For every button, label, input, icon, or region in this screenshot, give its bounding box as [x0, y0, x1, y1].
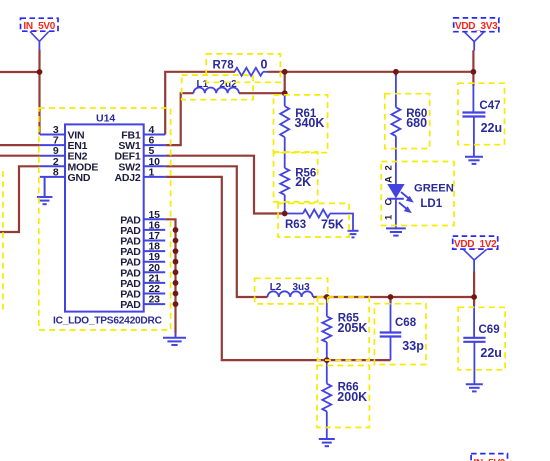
- svg-text:0: 0: [261, 58, 268, 72]
- pin 3 VIN stub: [40, 134, 65, 136]
- net label IN_5V0 (bottom, clipped) box: [471, 454, 507, 461]
- inductor L1: [194, 88, 239, 94]
- resistor R66: [322, 384, 331, 412]
- pin 21 PAD stub: [144, 282, 166, 284]
- svg-text:2K: 2K: [295, 175, 311, 189]
- wire SW1 to L1: [165, 93, 193, 145]
- highlight box L1: [182, 75, 253, 100]
- pin 19 PAD stub: [144, 261, 166, 263]
- svg-text:A: A: [384, 176, 395, 183]
- wire C69 lead: [473, 305, 475, 338]
- node VDD_3V3/C47 junction: [471, 69, 477, 75]
- node PAD21 junction: [173, 280, 179, 286]
- wire R63 right lead to ground: [330, 214, 353, 231]
- capacitor C68: [380, 331, 402, 333]
- op-amp U14 IC body: [65, 124, 144, 311]
- resistor R78: [235, 68, 264, 76]
- LED LD1 cathode bar: [387, 198, 404, 200]
- svg-text:340K: 340K: [295, 116, 325, 130]
- net VDD_3V3 supply arrow: [465, 32, 484, 41]
- svg-text:IC_LDO_TPS62420DRC: IC_LDO_TPS62420DRC: [53, 316, 163, 327]
- svg-text:GND: GND: [68, 172, 91, 184]
- ground at C69: [466, 383, 483, 385]
- wire VDD_1V2 drop: [473, 272, 475, 297]
- svg-text:22u: 22u: [480, 346, 502, 360]
- svg-text:C68: C68: [395, 317, 417, 329]
- wire R60 top lead: [395, 74, 397, 107]
- svg-text:VDD_3V3: VDD_3V3: [455, 21, 498, 32]
- wire R56 bottom lead: [284, 195, 286, 214]
- pin 8 GND stub down: [44, 177, 46, 197]
- highlight box C69: [458, 307, 505, 370]
- inductor L2: [268, 291, 313, 297]
- svg-text:1: 1: [384, 214, 395, 220]
- LED arrow 1: [401, 192, 410, 200]
- wire node link R78/L1: [284, 71, 286, 93]
- node L1/R61 junction: [282, 90, 288, 96]
- highlight box LD1: [381, 162, 454, 226]
- wire C68 bottom lead: [390, 337, 392, 361]
- node PAD23 junction: [173, 301, 179, 307]
- svg-text:205K: 205K: [338, 321, 368, 335]
- svg-text:2: 2: [384, 165, 395, 170]
- pin 22 PAD stub: [144, 293, 166, 295]
- node DEF1/R56/R63 junction: [282, 211, 288, 217]
- net label VDD_3V3 box: [454, 18, 499, 32]
- wire EN2 from left edge: [0, 155, 40, 157]
- pin 23 PAD stub: [144, 303, 166, 305]
- node L2/R65 junction: [324, 294, 330, 300]
- highlight box R56: [274, 152, 318, 202]
- svg-text:ADJ2: ADJ2: [114, 172, 140, 184]
- wire ADJ2 feedback to R65/R66 node: [165, 177, 390, 360]
- highlight box R63: [278, 203, 349, 237]
- wire C47 lead: [472, 85, 474, 113]
- svg-text:PAD: PAD: [120, 299, 141, 311]
- pin 1 ADJ2 stub: [144, 176, 166, 178]
- capacitor C69: [463, 337, 485, 339]
- svg-text:IN_5V0: IN_5V0: [23, 21, 55, 32]
- highlight box R78: [206, 54, 280, 82]
- ground at PAD bus: [163, 337, 186, 339]
- wire top rail to VDD_3V3: [285, 71, 474, 73]
- pin 7 EN1 stub: [40, 144, 65, 146]
- pin 16 PAD stub: [144, 229, 166, 231]
- svg-text:C69: C69: [479, 324, 500, 336]
- resistor R63: [303, 210, 330, 218]
- wire C47 to ground: [473, 117, 475, 157]
- wire C69 to ground: [473, 342, 475, 384]
- wire VDD_3V3 drop: [472, 50, 474, 72]
- pin 2 MODE stub: [40, 165, 65, 167]
- node PAD22 junction: [173, 291, 179, 297]
- node R78/rail junction: [282, 69, 288, 75]
- ground at R66: [319, 438, 335, 440]
- pin 6 SW1 stub: [144, 144, 166, 146]
- resistor R61: [280, 106, 289, 137]
- pin 8 GND stub: [40, 176, 65, 178]
- ground at C47: [465, 156, 483, 158]
- node R60 junction: [393, 69, 399, 75]
- svg-text:200K: 200K: [337, 390, 367, 404]
- pin 17 PAD stub: [144, 240, 166, 242]
- highlight box C68: [374, 304, 426, 365]
- net label IN_5V0 box: [21, 18, 59, 31]
- highlight box R65: [318, 297, 370, 360]
- pin 9 EN2 stub: [40, 155, 65, 157]
- wire PAD bus blue stub: [175, 333, 177, 338]
- pin 10 SW2 stub: [144, 165, 166, 167]
- pin 18 PAD stub: [144, 250, 166, 252]
- svg-text:GREEN: GREEN: [414, 183, 454, 195]
- highlight box R61: [274, 95, 328, 153]
- wire R78 right lead to node: [268, 71, 285, 73]
- ground at R63: [348, 230, 359, 232]
- ground at LED: [386, 227, 406, 229]
- highlight box C47: [458, 83, 505, 145]
- highlight box U14: [39, 108, 171, 330]
- svg-text:R63: R63: [285, 219, 306, 231]
- svg-text:23: 23: [149, 294, 161, 306]
- wire C68 top drop: [389, 297, 391, 303]
- wire IN_5V0 vertical to VIN: [38, 50, 40, 135]
- svg-text:L2: L2: [270, 282, 282, 293]
- wire R65 top lead: [326, 297, 328, 316]
- node C68 junction: [388, 294, 394, 300]
- svg-text:3u3: 3u3: [293, 282, 311, 293]
- capacitor C47: [462, 111, 485, 113]
- wire DEF1 to R63 node: [165, 156, 285, 214]
- node PAD18 junction: [173, 248, 179, 254]
- pin 20 PAD stub: [144, 271, 166, 273]
- wire R66 to ground: [326, 411, 328, 439]
- net VDD_1V2 supply arrow: [463, 249, 486, 260]
- wire R66 top lead: [326, 360, 328, 384]
- node PAD17 junction: [173, 238, 179, 244]
- LED arrow 2: [399, 203, 408, 211]
- svg-text:LD1: LD1: [420, 198, 442, 210]
- ground at U14 GND: [37, 196, 53, 198]
- svg-text:U14: U14: [96, 113, 115, 125]
- wire IN_5V0 horizontal to left edge: [0, 71, 40, 73]
- wire LED to ground: [395, 199, 397, 229]
- resistor R56: [280, 168, 289, 195]
- resistor R60: [391, 107, 400, 136]
- wire R60 to LED: [395, 136, 397, 184]
- wire C69 top drop: [473, 297, 475, 306]
- node PAD20 junction: [173, 269, 179, 275]
- pin 5 DEF1 stub: [144, 155, 166, 157]
- svg-text:2u2: 2u2: [220, 79, 238, 90]
- node PAD19 junction: [173, 259, 179, 265]
- wire R61 top lead: [284, 93, 286, 106]
- svg-text:VDD_1V2: VDD_1V2: [454, 239, 497, 250]
- wire R63 left lead: [285, 213, 303, 215]
- highlight box L2: [255, 278, 328, 304]
- svg-text:75K: 75K: [321, 218, 344, 232]
- resistor R65: [322, 316, 331, 342]
- LED LD1 triangle: [388, 185, 404, 198]
- svg-text:R78: R78: [213, 60, 235, 72]
- svg-text:22u: 22u: [481, 121, 503, 135]
- svg-text:33p: 33p: [402, 339, 424, 353]
- wire C68 lead: [390, 302, 392, 333]
- wire PAD bus: [165, 219, 175, 333]
- svg-text:680: 680: [406, 116, 427, 130]
- pin 15 PAD stub: [144, 218, 166, 220]
- node ADJ2/R65/R66 junction: [324, 357, 330, 363]
- wire FB1 to R78: [165, 72, 235, 135]
- node VDD_1V2/C69 junction: [471, 294, 477, 300]
- wire R60 top drop: [395, 72, 397, 76]
- wire R61-R56 link: [284, 137, 286, 168]
- net label VDD_1V2 box: [453, 236, 498, 249]
- highlight box R60: [385, 94, 430, 149]
- svg-text:C47: C47: [479, 100, 500, 112]
- wire L2 right lead / VDD_1V2 rail: [313, 296, 474, 298]
- wire C47 top drop: [472, 72, 474, 86]
- node IN_5V0 junction: [37, 69, 43, 75]
- net IN_5V0 supply arrow: [30, 32, 49, 42]
- svg-text:1: 1: [149, 166, 155, 178]
- wire R65 bottom lead: [326, 342, 328, 360]
- svg-text:C: C: [384, 198, 395, 205]
- wire MODE to left edge: [0, 166, 40, 232]
- wire EN1 from left edge: [0, 144, 40, 146]
- highlight box partial (left edge): [2, 171, 4, 313]
- pin 4 FB1 stub: [144, 134, 166, 136]
- node PAD16 junction: [173, 227, 179, 233]
- wire L1 right lead to node: [239, 92, 285, 94]
- highlight box R66: [317, 366, 369, 428]
- svg-text:8: 8: [53, 166, 59, 178]
- wire SW2 to L2: [165, 166, 267, 297]
